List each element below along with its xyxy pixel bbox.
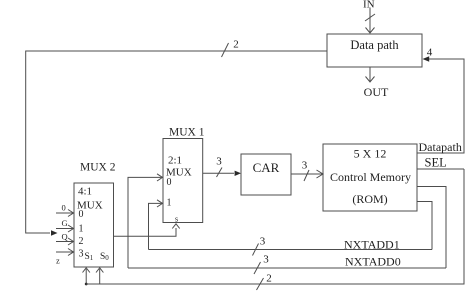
wire MUX2 output to MUX1 select s: [114, 228, 177, 236]
svg-text:CAR: CAR: [253, 160, 280, 175]
wire MUX2 select S0: [99, 269, 101, 284]
wire SEL bus (2-bit): [86, 169, 464, 284]
wire OUT: [369, 67, 371, 82]
svg-text:SEL: SEL: [425, 156, 447, 170]
wire NXTADD0 to MUX1 input 0: [128, 177, 163, 268]
svg-text:2:1: 2:1: [168, 155, 182, 167]
wire MUX2 select S1: [85, 269, 87, 284]
wire NXTADD1 (3-bit): [149, 249, 433, 251]
svg-text:3: 3: [263, 254, 269, 266]
svg-text:5 X 12: 5 X 12: [354, 147, 387, 161]
svg-text:(ROM): (ROM): [352, 192, 387, 206]
svg-text:Control Memory: Control Memory: [330, 170, 411, 184]
svg-text:3: 3: [79, 249, 84, 260]
wire Datapath bus (4-bit) to Data path: [417, 59, 464, 153]
block Data path: [327, 34, 422, 67]
wire CAR to ROM (3-bit): [291, 173, 323, 175]
svg-text:s: s: [175, 215, 178, 224]
svg-text:3: 3: [216, 156, 222, 168]
block MUX2: [74, 183, 114, 267]
svg-text:0: 0: [167, 177, 172, 188]
svg-text:1: 1: [167, 198, 172, 209]
svg-text:1: 1: [79, 224, 84, 235]
block ROM (5x12 control memory): [323, 144, 417, 211]
svg-text:3: 3: [260, 236, 266, 248]
wire ROM to NXTADD0: [417, 187, 446, 269]
svg-text:Q: Q: [62, 232, 68, 242]
svg-text:G: G: [62, 218, 68, 228]
svg-text:Data path: Data path: [350, 38, 399, 52]
svg-text:IN: IN: [363, 0, 375, 11]
svg-text:MUX 2: MUX 2: [80, 162, 116, 174]
svg-text:z: z: [56, 256, 60, 266]
svg-text:S0: S0: [100, 252, 109, 262]
svg-text:NXTADD0: NXTADD0: [345, 255, 401, 269]
svg-text:2: 2: [79, 236, 84, 247]
svg-text:NXTADD1: NXTADD1: [344, 238, 400, 252]
svg-text:0: 0: [79, 209, 84, 220]
wire IN to Data path: [369, 8, 371, 34]
svg-text:MUX 1: MUX 1: [169, 127, 205, 139]
wire ROM to NXTADD1: [417, 202, 432, 250]
junction dot: [85, 283, 88, 286]
wire SEL output of ROM: [417, 168, 464, 170]
block CAR: [241, 154, 291, 195]
svg-text:4: 4: [427, 47, 433, 59]
wire MUX1 output to CAR (3-bit): [203, 172, 234, 174]
svg-text:2: 2: [233, 39, 239, 51]
svg-text:Datapath: Datapath: [419, 140, 462, 154]
svg-text:OUT: OUT: [364, 85, 389, 99]
wire NXTADD1 to MUX1 input 1: [149, 203, 163, 249]
svg-text:3: 3: [302, 160, 308, 172]
block MUX1: [163, 139, 203, 223]
svg-text:4:1: 4:1: [78, 186, 92, 198]
svg-text:0: 0: [62, 203, 66, 213]
wire Data path status to MUX2 (2-bit): [26, 51, 327, 233]
svg-text:2: 2: [266, 273, 272, 285]
wire NXTADD0 (3-bit): [128, 267, 446, 269]
svg-text:S1: S1: [85, 252, 94, 262]
